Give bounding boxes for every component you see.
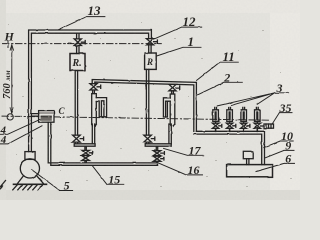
wire: stem to left vessel (93, 90, 95, 94)
ground mark at margin (0, 181, 6, 190)
wire: branch from left pipe to box C (31, 114, 38, 117)
vessel B2 sidearm (163, 98, 170, 117)
valve 17-left handle (89, 151, 92, 154)
leader for label 17 (164, 148, 204, 155)
regulator box U2 (label 1) (145, 53, 157, 69)
leader for label 2 (197, 82, 242, 95)
wire: valve to left header (75, 142, 77, 144)
leader for label 13 (58, 17, 105, 30)
box 9 on tank (243, 151, 253, 158)
valve handle (176, 86, 180, 89)
wire: right stack stem (156, 146, 157, 150)
scan grain overlay (0, 0, 300, 200)
vessel B2 sidearm inner tube (166, 101, 168, 117)
valve 16 lower right (153, 156, 161, 161)
pump P1 body (20, 159, 39, 178)
fitting 35 (sample port right of valve N4) (261, 124, 274, 128)
wire: stub valve V12 to regulator U2 (149, 45, 151, 53)
vessel B2 (right reometer) main tube (170, 94, 175, 126)
nozzle N3 body (241, 107, 247, 123)
leader for label 10 (264, 141, 293, 148)
wire: box 9 stem to tank (247, 159, 249, 165)
wire: N4 to manifold (256, 128, 258, 131)
dimension line 760mm (11, 45, 13, 113)
wire: stem from top pipe to valve V13 (left branch) (77, 33, 79, 39)
leader for label 35 (272, 113, 292, 125)
valve V12 (on right drop, at datum line) (146, 39, 153, 45)
wire: C pipe and bottom main pipe inner line (51, 122, 158, 165)
tick below H (7, 41, 9, 48)
wire: N2 to manifold (229, 128, 231, 131)
wire: left header (collector under left vessel) (74, 144, 95, 146)
nozzle N1 body (213, 107, 219, 123)
leader for label 12 (152, 27, 202, 40)
valve 17-left upper (82, 150, 90, 155)
valve N4 (254, 123, 260, 128)
regulator box U1 (label R.) (70, 54, 85, 71)
paper background (0, 0, 300, 200)
wire: valve V13 to regulator U1 (77, 46, 79, 54)
dimension arrowhead bottom (10, 108, 13, 113)
valve N2 handle (233, 124, 236, 127)
vessel B1 sidearm (96, 98, 106, 117)
ground hatching (13, 185, 43, 190)
leaders for labels 4 (0, 119, 42, 143)
valve right assembly handle (151, 137, 154, 140)
valve N1 (212, 123, 218, 128)
valve right assembly (x=147.6 y=138.6) (144, 135, 152, 142)
nozzle N4 body (255, 107, 261, 123)
wire: right vessel drop pipe to header (169, 124, 171, 144)
wire: left stack stem from header (85, 146, 86, 150)
wire: outer loop (left pipe, top pipe, right drop to valve 12) outer line (29, 30, 152, 152)
vessel B1 sidearm inner tube (101, 101, 104, 117)
valve 16-left lower (82, 156, 90, 161)
wire: N1 to manifold (215, 128, 217, 131)
leader for label 16 (159, 163, 203, 175)
datum dash-dot line upper (H level) (3, 43, 161, 45)
valve N1 handle (219, 124, 222, 127)
paper grain (8, 22, 292, 187)
leader for label 6 (256, 163, 295, 171)
valve left vessel top (x=93.5 y=86.8) (90, 84, 97, 90)
leader for label 9 (265, 150, 294, 157)
leader for label 15 (93, 166, 124, 184)
valve 17 upper right (153, 151, 161, 156)
wire: N3 to manifold (243, 128, 245, 131)
valve right vessel top (x=172.5 y=87.7) (169, 84, 176, 90)
valve left assembly (x=76.4 y=138.6) (73, 135, 81, 142)
valve 16 handle (161, 157, 164, 160)
wire: inner loop top pipe (sloped) outer line (92, 80, 196, 132)
vessel B1 (left reometer) main tube (92, 94, 97, 126)
leader for label 11 (197, 62, 239, 80)
leaders for label 3 (fan to nozzles) (217, 93, 288, 106)
wire: left lower pipe from U1 down to valve (75, 71, 77, 136)
wire: stem to bottom main pipe (156, 161, 157, 163)
valve V12 handle (154, 40, 158, 43)
dimension circle at bottom datum (7, 114, 13, 120)
valve V13 handle (81, 41, 85, 44)
valve N3 handle (247, 124, 250, 127)
separator box C (39, 111, 54, 123)
valve V13 (left branch, at datum line) (74, 39, 81, 46)
dimension arrowhead top (10, 45, 13, 50)
wire: manifold pipe to nozzles (194, 131, 265, 164)
wire: valve to right header (146, 142, 148, 144)
wire: C pipe and bottom main pipe outer line (48, 122, 157, 165)
wire: inner loop top pipe inner line (95, 82, 194, 131)
nozzle N2 body (227, 107, 233, 123)
pump P1 base legs (17, 175, 44, 184)
valve left assembly handle (80, 137, 83, 140)
valve 17 handle (161, 152, 165, 155)
wire: stem to bottom main pipe (85, 161, 86, 163)
wire: right header (145, 144, 171, 146)
leader for label 1 (157, 47, 201, 56)
wire: stem to right vessel (172, 91, 174, 94)
valve handle (97, 85, 101, 88)
pump base ground line (14, 183, 47, 185)
datum dash-dot line lower (2, 116, 270, 120)
leader for label 5 (32, 170, 73, 191)
wire: outer loop inner line (31, 33, 148, 151)
valve N2 (226, 123, 232, 128)
pump P1 (label 5) flange (25, 152, 35, 160)
tank T1 (label 6) (227, 165, 273, 177)
wire: left vessel drop pipe to header (92, 124, 94, 144)
wire: right lower pipe from U2 down to valve (146, 69, 148, 135)
valve N3 (241, 123, 247, 128)
